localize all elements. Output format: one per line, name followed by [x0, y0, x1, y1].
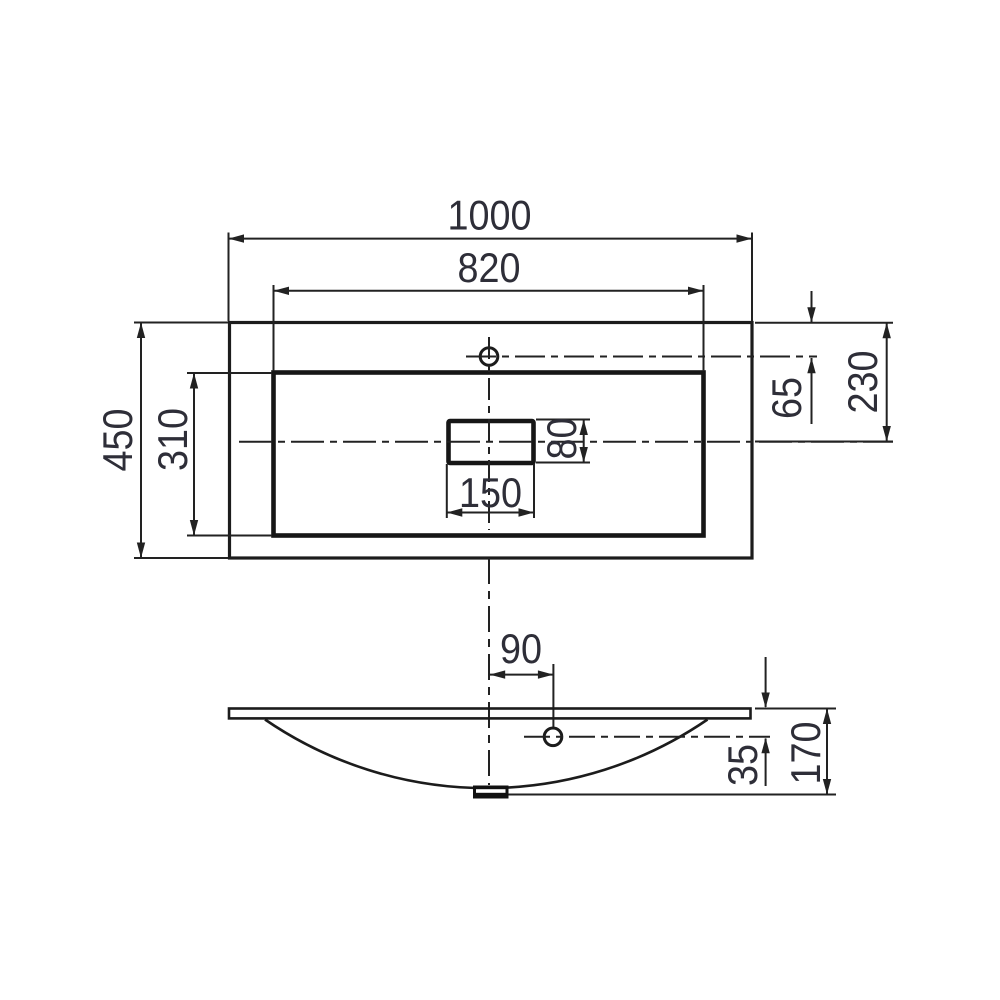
- svg-text:90: 90: [500, 625, 542, 672]
- dimension 230: [755, 323, 893, 442]
- dimension 820: [274, 285, 704, 371]
- svg-text:310: 310: [149, 408, 196, 471]
- dimension 450: [134, 323, 228, 559]
- svg-text:80: 80: [538, 418, 585, 460]
- outer basin rectangle (top view): [230, 323, 753, 559]
- inner basin rectangle (top view): [274, 373, 704, 536]
- bowl curve (side view): [265, 720, 708, 789]
- svg-text:35: 35: [719, 744, 766, 786]
- dimension 310: [187, 373, 272, 536]
- faucet hole (top view): [480, 348, 498, 366]
- svg-text:820: 820: [458, 244, 521, 291]
- dimension 35: [761, 657, 769, 786]
- vertical centerline top view: [488, 337, 490, 530]
- dimension 170: [508, 709, 836, 795]
- rim slab (side view): [229, 709, 751, 719]
- vertical centerline to side view: [488, 558, 490, 785]
- dimension 1000: [229, 233, 753, 322]
- overflow rectangle (top view): [449, 421, 534, 463]
- dimension 65: [807, 291, 815, 424]
- svg-text:1000: 1000: [448, 192, 532, 239]
- horizontal centerline main: [239, 441, 893, 443]
- svg-text:65: 65: [763, 377, 810, 419]
- faucet centerline (side view): [524, 736, 770, 738]
- svg-text:170: 170: [782, 722, 829, 785]
- svg-text:450: 450: [94, 409, 141, 472]
- dimension 90: [490, 664, 554, 727]
- svg-text:230: 230: [839, 351, 886, 414]
- svg-text:150: 150: [459, 469, 522, 516]
- horizontal centerline faucet: [466, 356, 817, 358]
- faucet hole (side view): [544, 728, 562, 746]
- dimension 80: [536, 420, 590, 463]
- dimension 150: [447, 464, 534, 518]
- drain (side view): [473, 786, 509, 799]
